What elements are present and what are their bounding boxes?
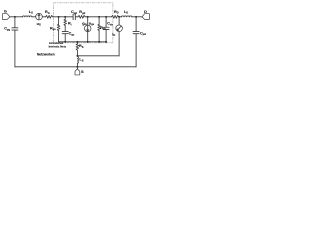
wire Ri top: [64, 17, 66, 20]
svg-text:Cgd: Cgd: [71, 10, 77, 15]
svg-text:Cds: Cds: [107, 22, 113, 27]
capacitor Cpg: [12, 28, 18, 30]
node id branch: [118, 16, 120, 18]
wire Cds top: [105, 17, 107, 27]
wire Cgs bottom: [64, 34, 66, 42]
svg-text:Ri: Ri: [68, 22, 72, 27]
wire LD to port D: [132, 16, 142, 18]
wire Rgs bottom: [58, 31, 60, 42]
node Rds branch: [98, 16, 100, 18]
resistor Rds: [98, 24, 101, 30]
svg-text:uG: uG: [37, 22, 41, 27]
bottom intrinsic wire: [59, 41, 106, 43]
svg-text:D: D: [144, 10, 147, 14]
resistor Ri: [64, 19, 67, 25]
ground rail: [15, 66, 136, 68]
svg-text:LG: LG: [29, 10, 33, 15]
wire Cpd to rail: [135, 34, 137, 67]
wire Ri to Cgs: [64, 26, 66, 32]
svg-text:iD: iD: [112, 32, 115, 37]
wire rail to port S: [76, 67, 78, 69]
node id return: [76, 55, 78, 57]
node Cpd branch: [135, 16, 137, 18]
node bottom Rds: [98, 41, 100, 43]
wire id top: [118, 17, 120, 25]
resistor Rgs: [57, 24, 60, 30]
node bottom Cds: [105, 41, 107, 43]
wire Cgd to Rgd: [75, 16, 78, 18]
port S: [75, 69, 80, 75]
wire id down: [118, 32, 120, 56]
wire G to Lg: [10, 16, 23, 18]
wire Cpg branch down: [14, 17, 16, 28]
node rail source: [76, 66, 78, 68]
wire source top: [76, 42, 78, 44]
svg-text:LD: LD: [124, 10, 128, 15]
wire uG to RG: [42, 16, 45, 18]
node bottom Ri: [64, 41, 66, 43]
svg-text:S: S: [81, 70, 84, 74]
svg-text:Rds: Rds: [100, 26, 106, 31]
svg-text:Cgs: Cgs: [69, 32, 75, 37]
wire RG to Cgd: [53, 16, 73, 18]
svg-text:gm: gm: [82, 21, 87, 26]
capacitor Cpd: [133, 31, 139, 33]
wire Rgd to RD: [85, 16, 111, 18]
wire Cpg to rail: [14, 30, 16, 67]
wire LS to rail: [76, 63, 78, 67]
node gm branch: [87, 16, 89, 18]
svg-text:Rgd: Rgd: [79, 10, 85, 15]
inductor LS: [76, 56, 79, 63]
node bottom source: [76, 41, 78, 43]
noise source iD: [116, 25, 123, 32]
wire RD to LD: [119, 16, 122, 18]
inductor LG: [22, 15, 32, 18]
capacitor Cds: [103, 27, 109, 29]
svg-text:RD: RD: [114, 10, 119, 15]
svg-text:Cpd: Cpd: [140, 31, 146, 36]
svg-text:Intrinsic Netz: Intrinsic Netz: [49, 44, 67, 48]
capacitor Cgd: [73, 14, 75, 20]
svg-text:Rgs: Rgs: [50, 26, 56, 31]
wire Rds bottom: [98, 31, 100, 42]
svg-text:G: G: [4, 10, 7, 14]
node Ri branch: [64, 16, 66, 18]
current source gm: [84, 25, 91, 32]
wire gm top: [87, 17, 89, 25]
intrinsic dashed box: [54, 3, 113, 43]
resistor Rgd: [78, 15, 85, 18]
resistor RS: [76, 44, 79, 50]
svg-text:LS: LS: [79, 58, 83, 63]
capacitor Cgs: [62, 31, 68, 33]
svg-text:RG: RG: [45, 10, 50, 15]
port G: [2, 14, 9, 20]
inductor LD: [121, 15, 132, 18]
resistor RG: [45, 15, 52, 18]
wire RS to node: [76, 50, 78, 56]
node bottom gm: [87, 41, 89, 43]
wire gm bottom: [87, 32, 89, 42]
svg-text:Cpg: Cpg: [4, 27, 10, 32]
resistor RD: [111, 15, 118, 18]
port D: [142, 14, 149, 20]
wire Cpd top: [135, 17, 137, 32]
wire id return to source: [77, 55, 119, 57]
svg-text:RS: RS: [79, 44, 84, 49]
node gate pad: [14, 16, 16, 18]
node Cds branch: [105, 16, 107, 18]
node Rgs branch: [58, 16, 60, 18]
wire Cds bottom: [105, 30, 107, 42]
wire Rds top: [98, 17, 100, 25]
noise source uG: [36, 13, 43, 20]
svg-text:Netzwerken: Netzwerken: [37, 53, 55, 57]
wire Rgs top: [58, 17, 60, 25]
wire LG to source uG: [32, 16, 36, 18]
